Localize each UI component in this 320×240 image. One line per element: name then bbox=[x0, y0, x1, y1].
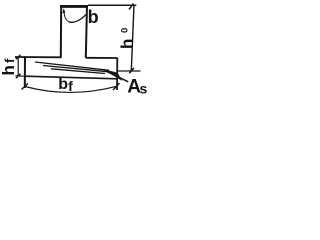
h0 top tick bbox=[129, 4, 134, 10]
As leader line bbox=[105, 71, 128, 82]
flange left edge bbox=[24, 56, 26, 88]
web right edge bbox=[86, 5, 87, 58]
h0 bottom extension line bbox=[117, 70, 141, 72]
b leader arrowhead bbox=[63, 9, 65, 13]
svg-text:b: b bbox=[88, 7, 99, 27]
bf left tick bbox=[22, 84, 29, 90]
svg-text:0: 0 bbox=[120, 28, 131, 33]
flange top edge left part with hf extension bbox=[15, 56, 62, 58]
web top edge bbox=[60, 5, 88, 8]
hf bottom extension line bbox=[16, 75, 26, 77]
As leader arrowhead bbox=[104, 70, 121, 80]
flange right edge bbox=[116, 58, 118, 90]
svg-text:h: h bbox=[0, 65, 18, 75]
svg-text:h: h bbox=[117, 39, 136, 49]
hf dimension line bbox=[17, 57, 19, 76]
svg-text:f: f bbox=[2, 58, 17, 63]
h0 dimension line bbox=[131, 5, 134, 71]
h0 bottom tick bbox=[129, 68, 134, 73]
flange bottom edge bbox=[25, 76, 117, 79]
rebar line 1 bbox=[35, 62, 109, 70]
b leader curve bbox=[64, 10, 69, 21]
svg-text:As: As bbox=[127, 76, 147, 97]
svg-text:bf: bf bbox=[58, 76, 73, 94]
b leader curve right part bbox=[69, 14, 87, 22]
hf bottom tick bbox=[16, 74, 21, 79]
flange top edge right part bbox=[86, 57, 118, 59]
bf dimension line (sagging) bbox=[25, 86, 117, 92]
rebar line 2 bbox=[43, 66, 109, 72]
h0 top extension line bbox=[88, 4, 136, 6]
hf top tick bbox=[16, 55, 21, 60]
rebar line 3 bbox=[51, 69, 105, 74]
bf right tick bbox=[113, 83, 120, 90]
web left edge bbox=[60, 5, 62, 58]
